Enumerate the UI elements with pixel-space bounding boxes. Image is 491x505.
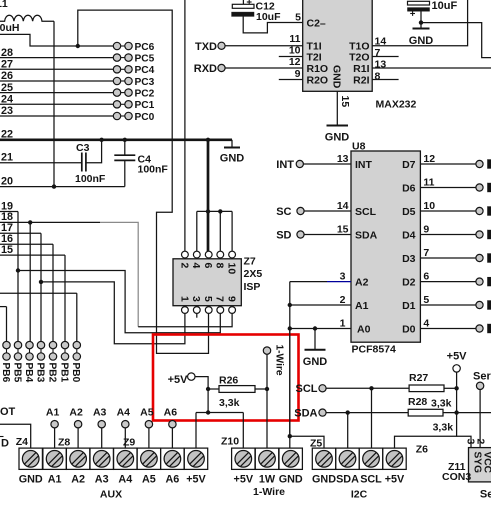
wire pin 24 — [0, 103, 113, 105]
wire OT to Z4 GND — [0, 424, 31, 448]
pad pair PC2 — [113, 88, 154, 99]
pad pair PB3 — [34, 341, 45, 382]
svg-text:24: 24 — [1, 94, 13, 106]
node +5V left — [168, 373, 195, 386]
svg-text:PB5: PB5 — [11, 363, 22, 383]
svg-text:2: 2 — [474, 439, 486, 445]
wire R27 to R28 junctions — [456, 388, 458, 412]
node INT — [276, 159, 351, 171]
ground symbol top right — [409, 23, 434, 47]
svg-text:D7: D7 — [402, 159, 416, 171]
svg-text:GND: GND — [312, 473, 336, 485]
wire ISP pin3 stub — [196, 313, 198, 317]
svg-text:10: 10 — [423, 200, 435, 212]
node D3 pad — [476, 254, 483, 261]
node D2 pad — [476, 278, 483, 285]
svg-text:I2C: I2C — [351, 489, 368, 501]
svg-text:D3: D3 — [402, 253, 416, 265]
node TXD — [195, 41, 303, 53]
svg-text:11: 11 — [423, 177, 434, 189]
op-amp U8 PCF8574 chip body — [351, 151, 420, 342]
junction +5V rail — [206, 410, 210, 414]
label fragment right edge row D5 — [487, 206, 491, 215]
svg-text:GND: GND — [220, 153, 245, 165]
wire PB6 column — [6, 307, 8, 342]
svg-text:MAX232: MAX232 — [376, 99, 417, 111]
wire line18 gray segment — [100, 222, 138, 326]
wire ISP pin4 — [196, 211, 198, 251]
svg-text:SDA: SDA — [336, 473, 359, 485]
node A2 — [69, 407, 83, 448]
wire line 17 — [0, 232, 41, 234]
svg-text:TXD: TXD — [195, 41, 217, 53]
svg-text:R27: R27 — [409, 372, 428, 384]
node A5 — [140, 407, 154, 448]
svg-text:A3: A3 — [93, 407, 107, 419]
node RXD — [194, 63, 303, 75]
svg-text:PC5: PC5 — [135, 53, 155, 64]
wire SCL to I2C terminal — [371, 388, 373, 448]
svg-text:22: 22 — [1, 129, 13, 141]
pad pair PB0 — [70, 341, 81, 382]
svg-text:+5V: +5V — [447, 351, 468, 363]
wire A2/A1/A0 to GND — [289, 282, 291, 437]
node SDA — [294, 407, 326, 419]
junction ISP gnd 2 — [218, 209, 222, 213]
wire GND to Z5 GND — [290, 436, 324, 448]
svg-text:9: 9 — [295, 68, 301, 80]
wire +5V rail to Z10 — [196, 412, 243, 414]
svg-text:R1O: R1O — [307, 63, 329, 75]
svg-text:INT: INT — [355, 159, 373, 171]
svg-text:PB2: PB2 — [46, 363, 57, 383]
op-amp U? MAX232 chip body — [303, 0, 373, 91]
label fragment right edge row D2 — [487, 277, 491, 286]
svg-text:26: 26 — [1, 70, 13, 82]
svg-text:2: 2 — [340, 294, 346, 306]
svg-text:A1: A1 — [46, 407, 60, 419]
svg-text:20: 20 — [1, 175, 13, 187]
svg-text:GND: GND — [19, 473, 43, 485]
wire GND to Z10 GND — [289, 329, 291, 448]
pad pair PC3 — [113, 77, 154, 88]
wire SDA to I2C terminal — [347, 413, 349, 448]
svg-text:ISP: ISP — [244, 281, 261, 293]
svg-text:1: 1 — [340, 318, 346, 330]
resistor R26 — [208, 375, 267, 409]
svg-text:2X5: 2X5 — [244, 268, 263, 280]
svg-text:D6: D6 — [402, 183, 416, 195]
wire to PB0 — [0, 292, 77, 294]
wire 10uF to right edge — [421, 23, 491, 58]
svg-text:+5V: +5V — [385, 473, 405, 485]
svg-text:5: 5 — [295, 11, 301, 23]
node D5 pad — [476, 207, 483, 214]
wire A2 black part — [290, 281, 327, 283]
junction SDA — [346, 410, 350, 414]
U8 pin labels — [355, 159, 416, 336]
node SD — [276, 230, 351, 242]
svg-text:3,3k: 3,3k — [433, 421, 454, 433]
svg-text:13: 13 — [337, 153, 349, 165]
wire D3 — [420, 257, 476, 259]
wire Z10 +5V pin — [242, 413, 244, 448]
wire D4 — [420, 234, 476, 236]
wire PB1 column — [64, 255, 66, 341]
svg-text:10uF: 10uF — [432, 0, 458, 12]
wire ISP gnd row — [197, 210, 232, 212]
svg-text:Ser: Ser — [473, 371, 491, 383]
svg-text:28: 28 — [1, 47, 13, 59]
connector Z10 terminals — [232, 448, 303, 469]
connector Z8/Z9 AUX terminals — [43, 448, 208, 469]
svg-text:23: 23 — [1, 105, 13, 117]
svg-text:Z8: Z8 — [58, 436, 70, 448]
svg-text:OT: OT — [0, 406, 16, 418]
svg-text:A1: A1 — [48, 473, 62, 485]
node D7 pad — [476, 160, 483, 167]
svg-text:+5V: +5V — [186, 473, 206, 485]
label fragment right edge row D1 — [487, 300, 491, 309]
svg-text:D2: D2 — [402, 277, 416, 289]
svg-text:8: 8 — [214, 263, 226, 269]
svg-text:1-Wire: 1-Wire — [274, 345, 285, 376]
junction line20/L1 — [52, 184, 56, 188]
capacitor C4 — [114, 140, 168, 187]
MAX232 pin labels — [307, 17, 370, 88]
svg-text:Z10: Z10 — [221, 435, 239, 447]
wire pin 28 — [0, 57, 113, 59]
label fragment right edge row D7 — [487, 159, 491, 168]
svg-text:7: 7 — [214, 296, 226, 302]
svg-text:Z4: Z4 — [16, 436, 28, 448]
connector Z11 CON3 body — [469, 448, 491, 482]
svg-text:13: 13 — [375, 59, 387, 71]
wire to PB6 — [0, 306, 7, 308]
svg-text:1: 1 — [178, 296, 190, 302]
pad pair PB5 — [11, 341, 22, 382]
node A3 — [93, 407, 107, 448]
ground MAX232 pin 15 — [325, 91, 351, 143]
node SC — [276, 206, 351, 218]
junction C4/GND bus — [123, 138, 127, 142]
svg-text:+5V: +5V — [168, 374, 189, 386]
svg-text:PCF8574: PCF8574 — [352, 344, 397, 356]
svg-text:A3: A3 — [95, 473, 109, 485]
svg-text:PC6: PC6 — [135, 42, 155, 53]
svg-text:8: 8 — [375, 71, 381, 83]
svg-text:R28: R28 — [408, 396, 427, 408]
svg-text:C3: C3 — [76, 142, 90, 154]
node SCL — [296, 383, 327, 395]
wire pin 10 stub — [279, 56, 303, 58]
svg-text:SYG: SYG — [471, 452, 482, 474]
svg-text:100nF: 100nF — [138, 163, 169, 175]
wire +5V to I2C terminal — [395, 413, 457, 448]
svg-text:RXD: RXD — [194, 63, 217, 75]
svg-text:7: 7 — [375, 47, 381, 59]
svg-text:L1: L1 — [0, 0, 8, 10]
svg-text:GND: GND — [303, 356, 328, 368]
svg-text:1-Wire: 1-Wire — [253, 486, 285, 498]
svg-text:AUX: AUX — [100, 489, 122, 501]
svg-text:A6: A6 — [165, 473, 179, 485]
node A1 — [46, 407, 60, 448]
wire SDA to R28 — [326, 412, 408, 414]
wire A1 — [290, 304, 351, 306]
junction SCL — [369, 386, 373, 390]
wire line 16 — [0, 243, 53, 245]
connector Z7 ISP body — [173, 259, 241, 306]
node D0 pad — [476, 325, 483, 332]
resistor R28 — [408, 396, 453, 433]
junction A1 — [288, 303, 292, 307]
junction 10uF/GND — [419, 20, 423, 24]
wire pin 7 stub — [372, 56, 398, 58]
svg-text:SCL: SCL — [296, 383, 318, 395]
svg-text:A4: A4 — [117, 407, 131, 419]
wire PB5 column — [17, 212, 19, 342]
wire D0 — [420, 328, 476, 330]
svg-text:10uH: 10uH — [0, 22, 19, 34]
svg-text:4: 4 — [190, 263, 202, 269]
svg-text:C2–: C2– — [307, 17, 326, 29]
wire PB5 to ISP pin7 — [18, 271, 220, 333]
svg-text:PB0: PB0 — [70, 363, 81, 383]
svg-text:R26: R26 — [219, 375, 238, 387]
wire pin 8 stub — [372, 79, 398, 81]
svg-text:3,3k: 3,3k — [219, 397, 240, 409]
svg-text:A5: A5 — [142, 473, 156, 485]
wire A0 — [290, 328, 351, 330]
wire PB4 column — [29, 222, 31, 341]
svg-text:PB4: PB4 — [23, 363, 34, 383]
junction A0/GND — [313, 326, 317, 330]
junction PB3 net — [39, 280, 43, 284]
wire PB0 column — [76, 293, 78, 341]
pad pair PC0 — [113, 112, 154, 123]
svg-text:A2: A2 — [71, 473, 85, 485]
svg-text:PB6: PB6 — [0, 363, 11, 383]
wire D2 — [420, 281, 476, 283]
pad pair PB6 — [0, 341, 11, 382]
junction A0 — [288, 326, 292, 330]
svg-text:GND: GND — [279, 473, 303, 485]
svg-text:SD: SD — [276, 230, 291, 242]
node +5V right — [447, 351, 468, 372]
wire line 18 — [0, 221, 100, 223]
svg-text:Z6: Z6 — [416, 444, 428, 456]
wire GND bus line 22 — [0, 138, 232, 141]
ISP top pads 2 4 6 8 10 — [178, 251, 237, 274]
svg-text:15: 15 — [1, 244, 13, 256]
svg-text:3: 3 — [190, 296, 202, 302]
svg-text:Z7: Z7 — [244, 256, 256, 268]
junction R26 left — [206, 387, 210, 391]
wire A2 blue part — [327, 281, 351, 283]
svg-text:4: 4 — [423, 318, 429, 330]
svg-text:Z9: Z9 — [123, 436, 135, 448]
svg-text:1W: 1W — [259, 473, 276, 485]
wire D1 — [420, 304, 476, 306]
svg-text:PC0: PC0 — [135, 112, 155, 123]
svg-text:15: 15 — [337, 224, 349, 236]
svg-text:GND: GND — [331, 65, 343, 89]
svg-text:SDA: SDA — [355, 230, 378, 242]
node D4 pad — [476, 231, 483, 238]
svg-text:PC4: PC4 — [135, 65, 155, 76]
junction R28/+5V — [454, 410, 458, 414]
wire PB3 to ISP pin1 — [41, 282, 185, 344]
junction R27/+5V — [454, 386, 458, 390]
ground symbol near C4 — [220, 140, 245, 165]
wire line 20 — [0, 186, 125, 188]
wire R27 to +5V — [444, 387, 457, 389]
capacitor C3 — [75, 140, 106, 185]
svg-text:3,3k: 3,3k — [431, 398, 452, 410]
ISP bottom pads 1 3 5 7 9 — [178, 296, 237, 313]
svg-text:15: 15 — [339, 96, 351, 108]
svg-text:9: 9 — [226, 296, 238, 302]
svg-text:25: 25 — [1, 82, 13, 94]
svg-text:D5: D5 — [402, 206, 416, 218]
Z10 terminal labels — [234, 473, 303, 498]
svg-text:D4: D4 — [402, 230, 416, 242]
ground symbol below A0 — [303, 329, 328, 368]
svg-text:PC2: PC2 — [135, 88, 155, 99]
svg-text:7: 7 — [423, 247, 429, 259]
pad pair PC5 — [113, 53, 154, 64]
svg-text:PB1: PB1 — [58, 363, 69, 383]
svg-text:VCC: VCC — [482, 452, 491, 474]
svg-text:A5: A5 — [140, 407, 154, 419]
wire pin 27 — [0, 68, 113, 70]
pad pair PC6 — [113, 42, 154, 53]
svg-text:R2O: R2O — [307, 74, 329, 86]
pad pair PB4 — [23, 341, 34, 382]
wire pin 25 — [0, 92, 113, 94]
svg-text:10: 10 — [226, 263, 238, 275]
wire D7 — [420, 163, 476, 165]
node D1 pad — [476, 301, 483, 308]
wire Ser to CON3 pin2 — [479, 390, 481, 448]
svg-text:GND: GND — [409, 35, 434, 47]
wire 1-Wire to Z10 — [266, 354, 268, 448]
wire +5V to R26 — [195, 377, 208, 413]
svg-text:D: D — [1, 437, 9, 449]
svg-text:2: 2 — [178, 263, 190, 269]
junction R26/1-Wire — [265, 387, 269, 391]
svg-text:A6: A6 — [164, 407, 178, 419]
svg-text:D1: D1 — [402, 300, 416, 312]
svg-text:D0: D0 — [402, 324, 416, 336]
wire pin 23 — [0, 115, 113, 117]
svg-text:9: 9 — [423, 224, 429, 236]
label fragment right edge row D3 — [487, 253, 491, 262]
wire pin 26 — [0, 80, 113, 82]
svg-text:10uF: 10uF — [256, 11, 281, 23]
wire line 21 — [0, 162, 81, 164]
svg-text:PB3: PB3 — [34, 363, 45, 383]
svg-text:14: 14 — [337, 200, 349, 212]
svg-text:12: 12 — [423, 153, 435, 165]
wire line 15 — [0, 254, 65, 256]
pad pair PB1 — [58, 341, 69, 382]
wire pin 9 stub — [279, 79, 303, 81]
wire to ISP pin9 — [138, 313, 232, 326]
svg-text:11: 11 — [289, 33, 300, 45]
wire fragment left edge — [0, 436, 4, 438]
wire +5V to CON3 pin3 — [457, 436, 471, 447]
svg-text:12: 12 — [289, 56, 301, 68]
wire D6 — [420, 187, 476, 189]
capacitor C12 — [232, 0, 303, 33]
svg-text:T2I: T2I — [307, 51, 322, 63]
junction GND Z10/Z5 — [288, 434, 292, 438]
AUX terminal labels — [19, 473, 207, 500]
svg-text:5: 5 — [202, 296, 214, 302]
wire D5 — [420, 210, 476, 212]
wire pin29 to PC6 — [0, 34, 113, 46]
wire +5V down — [456, 372, 458, 388]
junction line18/PB4 — [28, 220, 32, 224]
highlight box 1-Wire section — [153, 335, 299, 421]
pad pair PC4 — [113, 65, 154, 76]
label fragment right edge row D0 — [487, 324, 491, 333]
capacitor 10uF — [408, 0, 458, 23]
node Ser — [473, 371, 491, 390]
wire line 19 — [0, 211, 18, 213]
svg-text:SCL: SCL — [355, 206, 377, 218]
wire R28 to right edge — [443, 412, 491, 414]
svg-text:6: 6 — [202, 263, 214, 269]
wire top edge to ISP pin2 — [184, 0, 186, 251]
svg-text:3: 3 — [340, 270, 346, 282]
svg-text:INT: INT — [276, 159, 294, 171]
svg-text:SCL: SCL — [360, 473, 382, 485]
node A4 — [117, 407, 131, 448]
svg-text:27: 27 — [1, 59, 13, 71]
wire PB3 column — [40, 233, 42, 341]
svg-text:A2: A2 — [355, 277, 369, 289]
wire PC6 net to ISP pin5 — [78, 10, 209, 353]
svg-text:SDA: SDA — [294, 407, 317, 419]
connector Z4 terminal — [19, 448, 42, 469]
wire ISP pin10 — [231, 211, 233, 251]
label fragment right edge row D4 — [487, 230, 491, 239]
svg-text:R2I: R2I — [353, 74, 369, 86]
node D6 pad — [476, 184, 483, 191]
svg-text:PC3: PC3 — [135, 77, 155, 88]
wire R1I pin 13 — [372, 67, 491, 69]
pad pair PB2 — [46, 341, 57, 382]
wire PB2 column — [52, 244, 54, 341]
junction PB5 net — [16, 268, 20, 272]
svg-text:SC: SC — [276, 206, 291, 218]
wire ISP pin8 — [219, 211, 221, 251]
junction ISP gnd 1 — [206, 209, 210, 213]
svg-text:PC1: PC1 — [135, 100, 155, 111]
resistor R27 — [409, 372, 444, 392]
wire GND to ISP pin6 — [207, 140, 210, 251]
svg-text:GND: GND — [325, 132, 350, 144]
junction GND bus to ISP — [206, 138, 210, 142]
connector Z5/Z6 I2C terminals — [312, 448, 406, 469]
wire L1 to AVCC line 20 — [53, 21, 55, 186]
junction node PC6 — [76, 44, 80, 48]
svg-text:CON3: CON3 — [442, 471, 471, 483]
svg-text:5: 5 — [423, 294, 429, 306]
